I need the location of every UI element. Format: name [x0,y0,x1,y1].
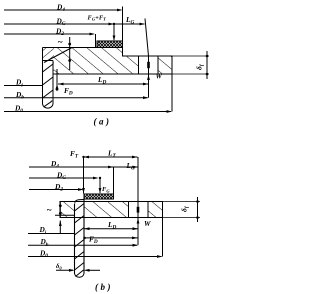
gasket (a) [97,41,123,48]
flange body hatch left (a) [43,48,55,75]
pipe walls (b) [74,204,76,274]
force F_D leader line (b) [83,237,137,240]
dimension line D_b (b) [28,244,138,247]
dimension L_D (a) [58,83,149,86]
pipe bottom cap (a) [43,104,54,108]
force F_T line and dim L_T (b) [82,156,137,194]
dimension line D_0 (b) [28,255,163,258]
hub taper line (a) [44,48,72,63]
hub small dim with tilde (a) [68,37,71,70]
dimension L_D (b) [84,227,138,230]
lap contact line (b) [55,214,75,216]
pipe hatch segments (b) [75,204,85,271]
wall thickness dim delta_0 (b) [56,269,100,272]
flange ring right cell hatch (a) [158,56,172,74]
dimension line D2 (b) [29,188,84,191]
bolt center line (b) [137,157,139,202]
dimension line D4 (a) [4,9,123,12]
svg-text:(a): (a) [94,117,112,127]
node: flange outer edge line (a) [171,74,173,112]
thickness dim delta_f (a) [172,51,209,79]
flange body outline (a) [43,48,173,105]
svg-text:(b): (b) [95,282,113,292]
ring hatch cells (b) [60,202,75,218]
dimension line D_i (a) [4,85,43,87]
bolt hole edges (b) [128,202,130,218]
force F_D line (a) [56,69,59,91]
dimension line D_0 (a) [4,110,172,113]
pipe wall (a) [52,61,54,105]
force F_G+F_T arrow (a) [113,23,116,41]
lap stub flange (b) [75,199,114,204]
node: bolt circle line upper (a) [145,19,149,57]
ring reaction arrow (b) [59,221,62,234]
bolt hole tick I (a) [147,62,150,68]
loose ring outline (b) [60,202,163,218]
dimension line D_G with F_G+F_T and L_G (a) [4,23,145,26]
dimension line D4 with L_G (b) [29,166,138,169]
labels (a) [14,3,205,127]
bolt hole edges (a) [138,56,140,74]
node: gasket inner edge line (a) [95,34,97,48]
bolt load W line (b) [137,218,140,246]
pipe break line (a) [44,101,53,108]
labels (b) [39,149,191,293]
pipe break line (b) [76,270,84,277]
pipe bore white channel (a) [43,61,52,75]
node: gasket outer edge line (b) [113,167,115,199]
bolt hole tick I (b) [137,207,140,213]
bolt center line through ring (a) [148,56,150,74]
pipe hatch segments (a) [43,64,54,98]
dimension line D_b (a) [4,96,149,99]
flange body hatch right (a) [54,48,139,75]
gasket (b) [84,194,114,199]
pipe top end weld line (a) [43,60,54,62]
bolt load W line (a) [147,74,150,98]
node: ring outer edge line (b) [162,218,164,257]
dimension line D_G (b) [29,177,99,180]
small dim with tilde (b) [59,202,62,218]
thickness dim delta_f (b) [163,197,201,222]
dimension line D2 (a) [4,33,95,36]
node: gasket outer edge line (a) [122,7,124,57]
svg-text:W: W [144,219,151,228]
svg-text:~: ~ [47,205,52,215]
svg-text:W: W [156,72,163,81]
svg-text:~: ~ [58,37,63,47]
dimension line D_i (b) [28,233,74,235]
force F_G arrow (b) [99,177,102,194]
pipe bottom cap (b) [75,274,85,278]
